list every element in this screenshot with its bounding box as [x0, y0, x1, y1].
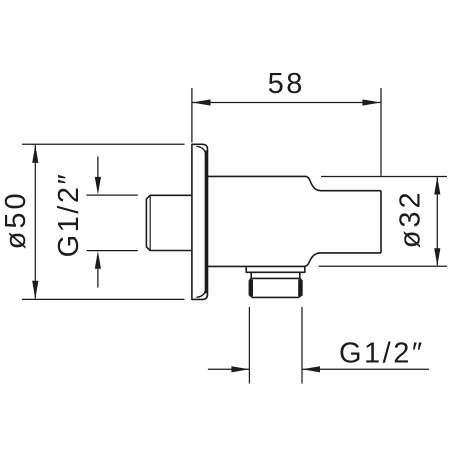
arrowhead o50 bottom — [32, 281, 38, 299]
dim G12 left top arrow line — [97, 157, 99, 183]
dim o32 top extension line — [321, 176, 447, 178]
outlet neck — [251, 272, 300, 278]
svg-text:58: 58 — [268, 68, 305, 100]
dim G12 left bottom extension line — [87, 250, 138, 252]
arrowhead G12 bottom right (pointing left) — [302, 366, 320, 372]
svg-text:G1/2″: G1/2″ — [339, 337, 425, 369]
svg-text:ø32: ø32 — [395, 189, 427, 248]
dim G12 left top extension line — [87, 194, 138, 196]
dim G12 left bottom arrow line — [97, 264, 99, 288]
dim 58 left extension line — [191, 88, 193, 143]
body right end face — [380, 191, 382, 253]
outlet thread body — [249, 278, 302, 297]
dim o50 dimension line — [34, 145, 36, 299]
dim o32 dimension line — [436, 177, 438, 265]
arrowhead G12 bottom left (pointing right) — [231, 366, 249, 372]
wall plate outline — [192, 144, 208, 299]
arrowhead o32 bottom — [434, 248, 440, 266]
outlet flange — [246, 266, 305, 272]
svg-text:G1/2″: G1/2″ — [53, 172, 85, 258]
dim G12 bottom left extension line — [248, 307, 250, 384]
dim o50 bottom extension line — [22, 298, 185, 300]
inlet stub chamfer line — [149, 195, 151, 250]
body bottom edge with fillet step — [208, 253, 382, 267]
dim G12 bottom left arrow line — [208, 368, 249, 370]
arrowhead o32 top — [434, 177, 440, 195]
arrowhead 58 left — [192, 99, 210, 105]
dim o32 bottom extension line — [319, 265, 447, 267]
outlet thread inner side lines — [251, 280, 300, 297]
arrowhead 58 right — [362, 99, 380, 105]
arrowhead G12 left top (pointing down) — [95, 177, 101, 195]
dim 58 dimension line — [192, 102, 380, 104]
wall plate face edge thick line — [205, 151, 207, 294]
body top edge with fillet step — [208, 176, 382, 190]
svg-text:ø50: ø50 — [0, 190, 32, 249]
wall plate inner face line — [197, 146, 206, 297]
dim G12 bottom right extension line — [301, 307, 303, 384]
dim 58 right extension line — [380, 88, 382, 176]
arrowhead o50 top — [32, 145, 38, 163]
dim G12 bottom right leader line — [302, 368, 429, 370]
inlet stub outline — [146, 195, 191, 250]
dim o50 top extension line — [22, 143, 185, 145]
arrowhead G12 left bottom (pointing up) — [95, 251, 101, 269]
